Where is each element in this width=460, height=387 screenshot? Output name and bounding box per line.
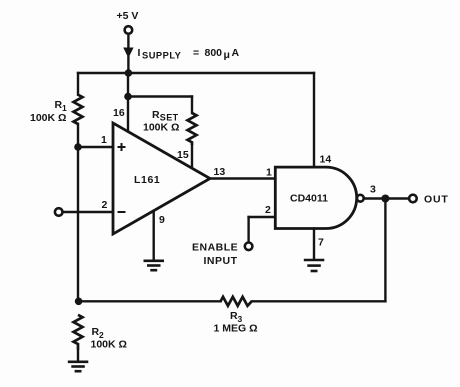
svg-text:16: 16 <box>113 107 125 119</box>
svg-text:100K Ω: 100K Ω <box>91 339 127 351</box>
svg-text:15: 15 <box>177 149 189 161</box>
svg-text:2: 2 <box>265 204 271 216</box>
svg-text:7: 7 <box>318 237 324 249</box>
svg-text:INPUT: INPUT <box>204 255 238 267</box>
svg-text:2: 2 <box>102 199 108 211</box>
svg-text:1: 1 <box>101 134 107 146</box>
svg-text:1: 1 <box>266 167 272 179</box>
svg-text:+5 V: +5 V <box>117 10 139 22</box>
svg-text:OUT: OUT <box>424 194 449 206</box>
svg-text:ENABLE: ENABLE <box>192 242 238 254</box>
svg-text:1 MEG Ω: 1 MEG Ω <box>214 323 258 335</box>
svg-text:13: 13 <box>214 166 226 178</box>
svg-text:R: R <box>152 109 160 121</box>
svg-text:L161: L161 <box>134 174 160 186</box>
svg-text:14: 14 <box>320 154 332 166</box>
svg-text:A: A <box>232 47 240 59</box>
svg-text:μ: μ <box>224 49 230 61</box>
svg-text:I: I <box>138 47 141 59</box>
svg-text:100K Ω: 100K Ω <box>30 112 66 124</box>
svg-text:100K Ω: 100K Ω <box>143 122 179 134</box>
svg-text:SUPPLY: SUPPLY <box>142 51 182 61</box>
svg-text:9: 9 <box>159 214 165 226</box>
svg-text:3: 3 <box>370 184 376 196</box>
svg-text:800: 800 <box>205 47 223 59</box>
svg-text:CD4011: CD4011 <box>290 193 328 205</box>
svg-text:=: = <box>193 47 199 59</box>
